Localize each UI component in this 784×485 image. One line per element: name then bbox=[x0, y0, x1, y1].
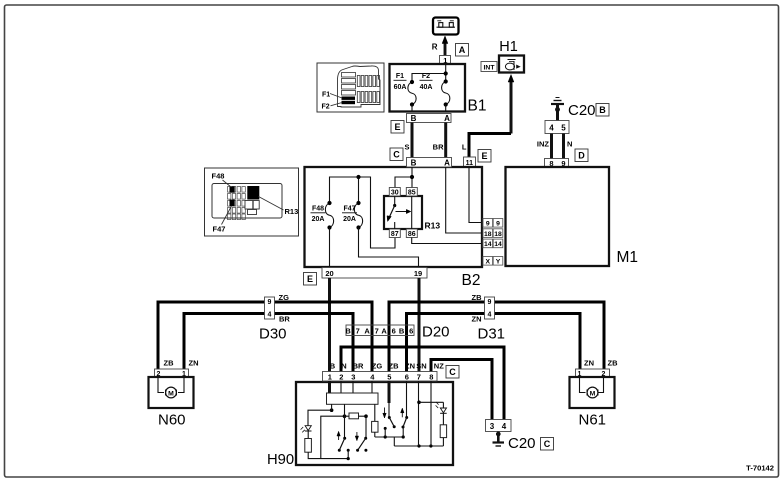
svg-text:A: A bbox=[444, 114, 450, 123]
svg-text:B: B bbox=[411, 158, 417, 167]
svg-text:A: A bbox=[459, 45, 466, 55]
svg-text:N: N bbox=[567, 140, 572, 149]
svg-text:30: 30 bbox=[391, 190, 399, 197]
svg-text:BR: BR bbox=[353, 362, 364, 371]
svg-text:C: C bbox=[393, 149, 400, 159]
svg-text:ZN: ZN bbox=[189, 359, 199, 368]
svg-text:S: S bbox=[404, 143, 409, 152]
svg-text:5: 5 bbox=[387, 372, 391, 381]
svg-text:A: A bbox=[381, 326, 387, 335]
svg-text:5: 5 bbox=[561, 124, 566, 133]
svg-text:ZG: ZG bbox=[279, 293, 290, 302]
svg-text:9: 9 bbox=[496, 221, 500, 228]
svg-text:B: B bbox=[599, 105, 606, 115]
svg-text:N60: N60 bbox=[158, 412, 186, 429]
svg-text:4: 4 bbox=[268, 311, 272, 318]
svg-text:D31: D31 bbox=[478, 326, 506, 343]
svg-text:14: 14 bbox=[494, 241, 502, 248]
svg-text:B2: B2 bbox=[462, 272, 481, 289]
svg-text:F48: F48 bbox=[312, 206, 324, 213]
svg-text:9: 9 bbox=[488, 299, 492, 306]
svg-text:B: B bbox=[330, 362, 336, 371]
svg-text:11: 11 bbox=[466, 160, 474, 167]
svg-text:E: E bbox=[307, 274, 313, 284]
svg-text:INT: INT bbox=[484, 64, 496, 71]
svg-text:R13: R13 bbox=[425, 221, 441, 231]
svg-text:4: 4 bbox=[488, 311, 492, 318]
svg-text:8: 8 bbox=[429, 372, 433, 381]
svg-text:19: 19 bbox=[414, 269, 422, 278]
svg-text:BR: BR bbox=[433, 143, 444, 152]
svg-text:14: 14 bbox=[484, 241, 492, 248]
svg-text:BR: BR bbox=[279, 315, 290, 324]
svg-text:ZB: ZB bbox=[389, 362, 400, 371]
svg-text:N: N bbox=[341, 362, 346, 371]
svg-text:ZG: ZG bbox=[372, 362, 383, 371]
svg-text:6: 6 bbox=[409, 326, 413, 335]
svg-text:20A: 20A bbox=[343, 216, 356, 223]
svg-text:20: 20 bbox=[325, 269, 333, 278]
svg-text:R: R bbox=[432, 43, 438, 52]
svg-text:ZB: ZB bbox=[164, 359, 175, 368]
svg-text:6: 6 bbox=[405, 372, 409, 381]
svg-text:F1: F1 bbox=[396, 73, 404, 80]
svg-text:D: D bbox=[578, 150, 585, 160]
svg-text:3: 3 bbox=[490, 422, 495, 431]
svg-text:4: 4 bbox=[549, 124, 554, 133]
svg-text:E: E bbox=[481, 151, 487, 161]
svg-text:B1: B1 bbox=[468, 98, 487, 115]
svg-text:C20: C20 bbox=[568, 102, 596, 119]
svg-text:F2: F2 bbox=[322, 104, 330, 111]
svg-text:C: C bbox=[544, 439, 551, 449]
svg-text:ZN: ZN bbox=[584, 359, 594, 368]
svg-text:1: 1 bbox=[328, 372, 332, 381]
svg-text:85: 85 bbox=[408, 190, 416, 197]
svg-text:B: B bbox=[399, 326, 405, 335]
svg-text:3: 3 bbox=[351, 372, 355, 381]
svg-text:D20: D20 bbox=[422, 324, 450, 341]
svg-text:C: C bbox=[449, 367, 456, 377]
svg-text:87: 87 bbox=[391, 231, 399, 238]
svg-text:Y: Y bbox=[496, 259, 501, 266]
svg-text:T-70142: T-70142 bbox=[746, 464, 774, 473]
svg-text:F47: F47 bbox=[213, 225, 226, 234]
svg-text:F2: F2 bbox=[422, 73, 430, 80]
svg-text:ZB: ZB bbox=[472, 293, 483, 302]
svg-text:18: 18 bbox=[494, 231, 502, 238]
svg-text:6: 6 bbox=[392, 326, 396, 335]
svg-text:7: 7 bbox=[356, 326, 360, 335]
svg-text:ZB: ZB bbox=[608, 359, 619, 368]
svg-text:D30: D30 bbox=[259, 326, 287, 343]
svg-text:2: 2 bbox=[339, 372, 343, 381]
svg-text:H90: H90 bbox=[267, 452, 294, 468]
svg-text:M: M bbox=[168, 390, 174, 397]
svg-text:N61: N61 bbox=[579, 412, 607, 429]
svg-text:7: 7 bbox=[417, 372, 421, 381]
svg-text:A: A bbox=[364, 326, 370, 335]
svg-text:F48: F48 bbox=[212, 172, 225, 181]
svg-text:B: B bbox=[345, 326, 351, 335]
svg-text:M1: M1 bbox=[617, 249, 639, 266]
svg-text:A: A bbox=[444, 158, 450, 167]
svg-text:X: X bbox=[486, 259, 491, 266]
svg-text:NZ: NZ bbox=[434, 362, 444, 371]
svg-text:SN: SN bbox=[416, 362, 426, 371]
svg-text:ZN: ZN bbox=[405, 362, 415, 371]
svg-text:F1: F1 bbox=[322, 91, 330, 98]
svg-text:R13: R13 bbox=[285, 207, 299, 216]
svg-text:40A: 40A bbox=[420, 84, 433, 91]
svg-text:B: B bbox=[411, 114, 417, 123]
svg-text:C20: C20 bbox=[508, 435, 536, 452]
svg-text:18: 18 bbox=[484, 231, 492, 238]
svg-text:86: 86 bbox=[408, 231, 416, 238]
svg-text:F47: F47 bbox=[343, 206, 355, 213]
svg-text:ZN: ZN bbox=[472, 315, 482, 324]
svg-text:INZ: INZ bbox=[537, 140, 550, 149]
svg-text:E: E bbox=[394, 122, 400, 132]
svg-text:9: 9 bbox=[486, 221, 490, 228]
svg-text:7: 7 bbox=[375, 326, 379, 335]
svg-text:60A: 60A bbox=[394, 84, 407, 91]
svg-text:9: 9 bbox=[268, 299, 272, 306]
svg-text:L: L bbox=[462, 143, 467, 152]
svg-text:4: 4 bbox=[502, 422, 507, 431]
svg-text:20A: 20A bbox=[312, 216, 325, 223]
svg-text:M: M bbox=[590, 390, 596, 397]
svg-text:H1: H1 bbox=[499, 39, 518, 55]
